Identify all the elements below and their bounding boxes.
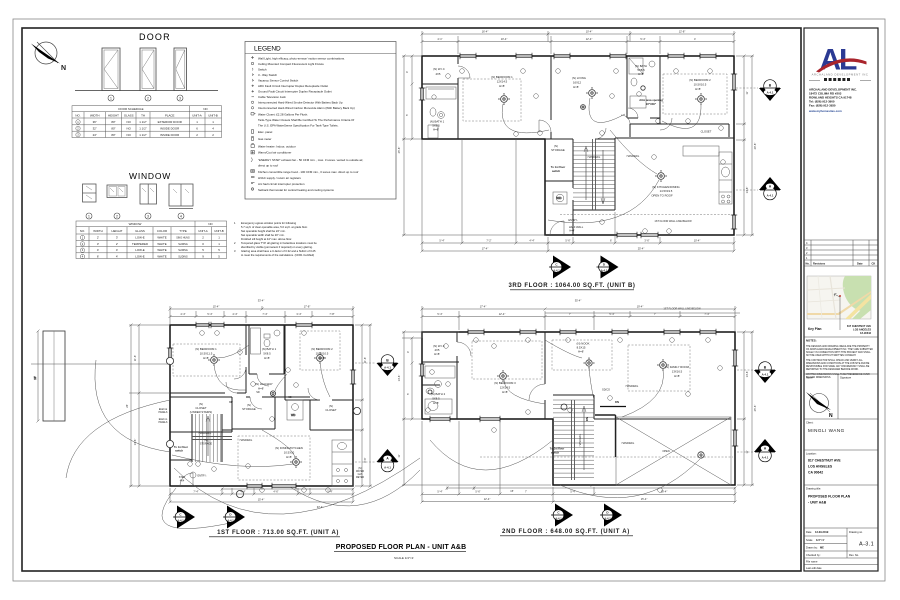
svg-text:File name: File name	[806, 560, 818, 564]
section marker A (right, pointing up)	[759, 177, 781, 200]
svg-text:LOW-E: LOW-E	[135, 236, 144, 240]
svg-text:12X14.5: 12X14.5	[497, 80, 508, 84]
ceiling fans 2nd floor	[428, 357, 704, 458]
section marker B right (pointing down)	[377, 355, 399, 376]
svg-text:ENTRY-: ENTRY-	[568, 218, 578, 222]
bottom info rows	[804, 528, 878, 565]
svg-text:Tank-Type Water Closets Shall: Tank-Type Water Closets Shall Be Certifi…	[258, 118, 354, 122]
svg-text:Date: Date	[857, 262, 863, 266]
svg-text:Net openable width shall be 20: Net openable width shall be 20" min.	[241, 233, 285, 237]
window symbol 3	[140, 184, 157, 204]
svg-text:(N) BEDROOM 3: (N) BEDROOM 3	[494, 381, 516, 385]
svg-text:HANDRAIL: HANDRAIL	[240, 439, 253, 442]
svg-text:18': 18'	[33, 376, 37, 380]
svg-text:LOS ANGELES: LOS ANGELES	[808, 465, 833, 469]
svg-text:UP: UP	[229, 400, 233, 404]
svg-text:H=8': H=8'	[695, 87, 701, 91]
bold small notes	[551, 98, 663, 173]
svg-text:H=8': H=8'	[573, 85, 579, 89]
main caption	[334, 544, 466, 560]
svg-text:STORAGE: STORAGE	[242, 407, 256, 411]
section marker C bottom	[173, 506, 195, 529]
svg-text:(N) W.I.C: (N) W.I.C	[433, 67, 445, 71]
svg-text:12'-8": 12'-8"	[679, 30, 686, 34]
entry door arc	[550, 221, 564, 235]
svg-text:HANDRAIL: HANDRAIL	[627, 155, 640, 158]
svg-text:A-4.1: A-4.1	[384, 466, 391, 470]
svg-text:Client:: Client:	[806, 421, 814, 425]
svg-text:17'-4": 17'-4"	[482, 247, 489, 251]
room labels 1st floor	[159, 347, 365, 483]
stairs 2nd floor	[553, 400, 626, 480]
svg-text:7'-4": 7'-4"	[704, 312, 709, 316]
svg-text:NO: NO	[208, 222, 213, 226]
company name under logo	[812, 73, 869, 77]
svg-text:switch: switch	[551, 451, 560, 455]
svg-text:TH: TH	[141, 114, 145, 118]
svg-text:SD: SD	[288, 396, 292, 399]
svg-text:10.5X11.5: 10.5X11.5	[200, 352, 213, 356]
svg-text:1: 1	[88, 214, 90, 218]
svg-text:11': 11'	[745, 450, 749, 454]
svg-text:Attic area opening: Attic area opening	[639, 98, 663, 102]
svg-text:(N) BEDROOM 2: (N) BEDROOM 2	[311, 347, 333, 351]
svg-text:5'-4": 5'-4"	[570, 490, 575, 494]
svg-text:A: A	[820, 43, 842, 76]
svg-text:ARC Fault Circuit Interrupter: ARC Fault Circuit Interrupter Duplex Rec…	[258, 84, 328, 88]
drawing title box	[804, 485, 878, 505]
svg-text:1: 1	[110, 96, 112, 100]
svg-text:A-4.1: A-4.1	[555, 517, 562, 521]
svg-text:To 1st floor: To 1st floor	[551, 165, 565, 169]
svg-text:5'-6": 5'-6"	[565, 239, 570, 243]
window symbol 1	[83, 184, 97, 202]
bath2 fixtures (middle bath)	[629, 58, 655, 108]
svg-text:(N) BATH 1: (N) BATH 1	[262, 347, 277, 351]
svg-text:SLIDING: SLIDING	[178, 256, 188, 259]
svg-text:5'-4": 5'-4"	[437, 312, 442, 316]
svg-text:10.5X10: 10.5X10	[284, 451, 295, 455]
svg-text:Revisions: Revisions	[813, 262, 826, 266]
big sweep curves around 1st floor	[66, 360, 420, 529]
svg-text:CLOSET: CLOSET	[325, 408, 336, 412]
svg-text:GLASS: GLASS	[135, 229, 145, 233]
section marker A right (pointing up)	[377, 449, 399, 472]
svg-text:4'-6": 4'-6"	[273, 490, 278, 494]
svg-text:Tempered glass TYP. all glazin: Tempered glass TYP. all glazing in hazar…	[241, 241, 317, 245]
svg-text:INSIDE DOOR: INSIDE DOOR	[160, 133, 179, 137]
svg-text:ELEC-G: ELEC-G	[159, 419, 168, 421]
svg-text:5'-4": 5'-4"	[609, 312, 614, 316]
svg-text:STORAGE: STORAGE	[200, 443, 213, 446]
svg-text:29'-8": 29'-8"	[753, 143, 757, 150]
svg-text:33'-4": 33'-4"	[258, 299, 265, 303]
svg-text:Cable Television Jack: Cable Television Jack	[258, 95, 286, 99]
right dimension lines	[736, 55, 754, 237]
svg-text:80": 80"	[111, 133, 115, 137]
svg-text:Setback thermostat for central: Setback thermostat for central heating a…	[258, 188, 334, 192]
svg-text:817 CHESTNUT AVE: 817 CHESTNUT AVE	[808, 459, 841, 463]
svg-text:DN: DN	[615, 400, 619, 404]
number bubbles 1st floor	[188, 331, 331, 493]
1st floor exterior walls	[170, 325, 353, 486]
svg-text:Switch: Switch	[258, 68, 267, 72]
wd boxes	[287, 400, 303, 420]
svg-text:Water heater: Indoor, outdoor: Water heater: Indoor, outdoor	[258, 145, 296, 149]
1st floor plan	[31, 299, 420, 537]
location box	[804, 450, 878, 475]
ceiling fans 1st floor	[208, 352, 326, 468]
svg-text:5X8.5: 5X8.5	[263, 352, 271, 356]
svg-text:80": 80"	[111, 127, 115, 131]
windows on right and left and bottom walls	[419, 74, 737, 238]
door arcs 1st floor	[226, 367, 320, 409]
svg-text:7'-4": 7'-4"	[262, 312, 267, 316]
svg-text:DN: DN	[585, 417, 589, 421]
svg-text:H=8': H=8'	[264, 356, 270, 360]
svg-text:HALF WALL: HALF WALL	[569, 225, 584, 229]
top dimension lines	[421, 31, 736, 56]
svg-text:14'-6": 14'-6"	[745, 371, 749, 378]
svg-text:Checked by:: Checked by:	[806, 553, 821, 557]
kitchen counter	[332, 440, 353, 486]
svg-text:15'-4": 15'-4"	[258, 498, 265, 502]
svg-text:12'-4": 12'-4"	[499, 312, 506, 316]
left dimension lines 2nd floor	[402, 331, 551, 487]
svg-text:1 1/2": 1 1/2"	[139, 127, 146, 131]
svg-text:H=8': H=8'	[319, 356, 325, 360]
svg-text:7'-8": 7'-8"	[329, 312, 334, 316]
W bubbles	[166, 357, 360, 497]
windows on top wall	[460, 53, 716, 59]
svg-text:NOT BE USED WITHOUT WRITTEN CO: NOT BE USED WITHOUT WRITTEN CONSENT.	[806, 355, 857, 357]
svg-text:A-4.1: A-4.1	[762, 456, 769, 460]
svg-text:25'-8": 25'-8"	[397, 147, 401, 154]
svg-text:OF ARCHALAND DEVELOPMENT INC.: OF ARCHALAND DEVELOPMENT INC. THEY ARE S…	[806, 348, 873, 351]
svg-text:(N): (N)	[358, 468, 361, 470]
company logo AL	[816, 43, 867, 76]
svg-text:11'-6": 11'-6"	[363, 357, 367, 363]
svg-text:15': 15'	[510, 489, 514, 493]
svg-text:3'-4": 3'-4"	[296, 312, 301, 316]
svg-text:HANDRAIL: HANDRAIL	[199, 432, 212, 435]
stairs 1st floor	[192, 414, 232, 462]
2nd floor exterior walls	[422, 332, 735, 485]
svg-text:32": 32"	[93, 127, 97, 131]
door symbol 2	[140, 48, 156, 91]
svg-text:Ceiling Mounted Compact Fluore: Ceiling Mounted Compact Fluorescent Ligh…	[258, 62, 324, 66]
svg-text:5X8.5: 5X8.5	[432, 397, 440, 401]
svg-text:"ENERGY STAR" exhaust fan - 50: "ENERGY STAR" exhaust fan - 50 CFM min. …	[258, 158, 363, 162]
3rd floor plan	[397, 30, 781, 290]
notes paragraph	[806, 339, 873, 380]
svg-text:11'-6": 11'-6"	[133, 355, 137, 361]
svg-text:REPORTED TO THE DESIGNER BEFOR: REPORTED TO THE DESIGNER BEFORE WORK.	[806, 369, 859, 371]
kitchen counter and appliances	[683, 146, 732, 204]
svg-text:Scale: Scale	[806, 538, 813, 542]
svg-text:H=8': H=8'	[433, 401, 439, 405]
window schedule table	[76, 221, 227, 259]
svg-text:Drawn by:: Drawn by:	[806, 546, 818, 550]
svg-text:Glazing area shall have a U-fa: Glazing area shall have a U-factor of 0.…	[241, 249, 316, 253]
svg-text:H=8': H=8'	[674, 374, 680, 378]
svg-text:HEIGHT: HEIGHT	[108, 114, 119, 118]
svg-text:A-4.1: A-4.1	[177, 519, 184, 523]
svg-text:11': 11'	[397, 454, 401, 458]
title block frame	[804, 28, 878, 571]
svg-text:WINDOW: WINDOW	[129, 222, 142, 226]
3rd floor exterior walls	[422, 56, 734, 235]
bath 1 fixtures	[251, 328, 281, 354]
switch curves	[502, 98, 701, 223]
door symbol 1	[102, 48, 120, 91]
room labels 2nd floor	[431, 308, 701, 454]
svg-text:Gas meter: Gas meter	[258, 137, 272, 141]
svg-text:36": 36"	[93, 120, 97, 124]
svg-text:Rev. No.: Rev. No.	[849, 553, 859, 557]
inner drawing frame	[22, 28, 801, 571]
svg-text:Signature: Signature	[840, 376, 852, 380]
svg-text:17'-8": 17'-8"	[304, 305, 311, 309]
svg-text:16X12: 16X12	[573, 81, 582, 85]
svg-text:- UNIT A&B: - UNIT A&B	[808, 501, 827, 505]
svg-text:5'-4": 5'-4"	[439, 239, 444, 243]
svg-text:11': 11'	[745, 91, 749, 95]
svg-text:WHITE: WHITE	[157, 236, 166, 240]
svg-text:A-4.1: A-4.1	[604, 517, 611, 521]
window symbol 4	[169, 184, 193, 209]
svg-text:3RD FLOOR : 1064.00 SQ.FT. (: 3RD FLOOR : 1064.00 SQ.FT. (UNIT B)	[509, 283, 636, 289]
DOOR section title	[139, 32, 171, 42]
svg-text:22"X30": 22"X30"	[646, 102, 657, 106]
right dimension lines 1st floor	[355, 324, 372, 488]
svg-text:LEGEND: LEGEND	[254, 46, 281, 53]
svg-text:THE CONTRACTOR SHALL CHECK AND: THE CONTRACTOR SHALL CHECK AND VERIFY AL…	[806, 359, 863, 362]
svg-text:W/D: W/D	[557, 196, 562, 200]
svg-text:NOTES:: NOTES:	[806, 339, 817, 343]
svg-text:A-4.1: A-4.1	[767, 91, 774, 95]
top dimension lines 2nd floor	[421, 306, 741, 338]
2nd floor title	[500, 529, 633, 536]
bold notes 1st floor	[174, 400, 233, 453]
svg-text:ARCHALAND DEVELOPMENT INC: ARCHALAND DEVELOPMENT INC	[812, 73, 869, 77]
door symbol 3	[174, 48, 187, 91]
svg-text:EXTERIOR DOOR: EXTERIOR DOOR	[158, 120, 182, 124]
svg-text:1 1/2": 1 1/2"	[139, 133, 146, 137]
top dimension lines 1st floor	[169, 306, 355, 325]
svg-text:www.myhomesites.com: www.myhomesites.com	[808, 109, 842, 113]
svg-text:OPEN: OPEN	[662, 449, 669, 453]
svg-text:SD/CO: SD/CO	[602, 389, 610, 392]
svg-text:NO: NO	[127, 120, 132, 124]
svg-text:1/4"=1': 1/4"=1'	[816, 538, 825, 542]
svg-text:HVAC supply / return air regis: HVAC supply / return air registers	[258, 176, 301, 180]
svg-text:ELEC-E: ELEC-E	[159, 409, 168, 411]
window number bubbles	[86, 213, 184, 219]
svg-text:Date: Date	[806, 530, 812, 534]
svg-text:direct up to roof: direct up to roof	[258, 164, 278, 168]
entry door arc	[180, 472, 196, 486]
revisions table	[804, 240, 878, 266]
stairs 3rd floor	[573, 139, 615, 210]
svg-text:N: N	[829, 413, 833, 419]
svg-text:Drawing title:: Drawing title:	[806, 487, 821, 491]
svg-text:3: 3	[179, 96, 181, 100]
long extension line to annex	[31, 330, 170, 423]
svg-text:WIDTH: WIDTH	[93, 229, 102, 233]
svg-text:WATER: WATER	[356, 470, 364, 473]
svg-text:ENTRY:: ENTRY:	[198, 475, 207, 478]
svg-text:5'-4": 5'-4"	[327, 490, 332, 494]
svg-text:TYPE: TYPE	[179, 229, 187, 233]
title block content	[804, 43, 878, 570]
svg-text:SLIDING: SLIDING	[178, 243, 188, 246]
svg-text:H=8': H=8'	[499, 84, 505, 88]
3rd floor title	[509, 283, 636, 290]
svg-text:Interconnected Hard-Wired Smok: Interconnected Hard-Wired Smoke Detector…	[258, 101, 343, 105]
ceiling fans	[498, 86, 707, 182]
svg-text:7'-2": 7'-2"	[486, 239, 491, 243]
svg-text:CA 90642: CA 90642	[808, 471, 823, 475]
bottom dimension lines	[421, 139, 736, 253]
svg-text:A-4.1: A-4.1	[553, 269, 560, 273]
svg-text:PROPOSED FLOOR PLAN: PROPOSED FLOOR PLAN	[808, 495, 851, 499]
svg-text:PROPOSED FLOOR PLAN - UNIT A&B: PROPOSED FLOOR PLAN - UNIT A&B	[336, 544, 467, 551]
general notes tiny block under legend	[234, 221, 317, 257]
svg-text:14.5X19.5: 14.5X19.5	[660, 189, 673, 193]
dashed ceiling boxes 2nd floor	[472, 340, 690, 391]
section marker B right 2nd (pointing down)	[754, 362, 776, 383]
svg-text:Finished sill height at 44" ma: Finished sill height at 44" max. above f…	[241, 237, 292, 241]
right dimension lines 2nd floor	[737, 331, 754, 487]
svg-text:3'-6": 3'-6"	[644, 239, 649, 243]
section marker C bottom 2nd	[551, 504, 573, 527]
svg-text:4'-4": 4'-4"	[232, 312, 237, 316]
svg-text:2ND FLOOR : 648.00 SQ.FT. (U: 2ND FLOOR : 648.00 SQ.FT. (UNIT A)	[502, 529, 630, 535]
svg-text:switch: switch	[552, 169, 561, 173]
svg-text:Emergency egress window points: Emergency egress window points for follo…	[241, 221, 297, 225]
svg-text:DIMENSIONS AND CONDITIONS AT T: DIMENSIONS AND CONDITIONS AT THE JOB SIT…	[806, 362, 870, 365]
svg-text:WD: WD	[291, 413, 295, 417]
svg-text:(N) BATH 2: (N) BATH 2	[431, 392, 446, 396]
svg-text:5'-4": 5'-4"	[437, 490, 442, 494]
svg-text:Vacancy Sensor Control Switch: Vacancy Sensor Control Switch	[258, 79, 299, 83]
svg-text:H=8': H=8'	[434, 352, 440, 356]
svg-text:12X14.5: 12X14.5	[500, 386, 511, 390]
svg-text:OPEN TO ROOF: OPEN TO ROOF	[651, 194, 673, 198]
svg-text:25'-4": 25'-4"	[638, 247, 645, 251]
north and signature box	[804, 374, 878, 419]
svg-text:WIDTH: WIDTH	[90, 114, 99, 118]
svg-text:Fax: (626) 912-3930: Fax: (626) 912-3930	[809, 104, 836, 108]
svg-text:H=4': H=4'	[569, 229, 575, 233]
svg-text:(N) LIVING: (N) LIVING	[572, 76, 586, 80]
svg-text:Elec. panel: Elec. panel	[258, 130, 273, 134]
svg-text:METER: METER	[356, 477, 364, 479]
svg-text:10'-4": 10'-4"	[586, 30, 593, 34]
svg-text:SOLELY IN CONNECTION WITH THIS: SOLELY IN CONNECTION WITH THIS PROJECT A…	[806, 351, 871, 354]
svg-text:4'-4": 4'-4"	[529, 239, 534, 243]
svg-text:To 1st floor: To 1st floor	[550, 447, 564, 451]
svg-text:STORAGE: STORAGE	[551, 148, 565, 152]
svg-text:19'-4": 19'-4"	[637, 305, 644, 309]
2nd floor plan	[397, 299, 776, 536]
svg-text:Interconnected Hard-Wired Carb: Interconnected Hard-Wired Carbon Monoxid…	[258, 106, 355, 110]
svg-text:NO: NO	[127, 127, 132, 131]
svg-text:WHITE: WHITE	[157, 242, 166, 246]
svg-text:4X4: 4X4	[180, 480, 185, 483]
svg-text:1 1/2": 1 1/2"	[139, 120, 146, 124]
svg-text:INSIDE DOOR: INSIDE DOOR	[160, 127, 179, 131]
svg-text:H=8': H=8'	[433, 128, 439, 132]
svg-text:35'-4": 35'-4"	[575, 299, 582, 303]
svg-text:10.5X10.5: 10.5X10.5	[694, 83, 707, 87]
svg-text:Water Closet: £2.28 Gallons Pe: Water Closet: £2.28 Gallons Per Flush.	[258, 113, 308, 117]
section cut dashes 3rd floor	[736, 88, 758, 190]
svg-text:RESPONSIBLE FOR SAME. ANY DISC: RESPONSIBLE FOR SAME. ANY DISCREPANCY SH…	[806, 365, 870, 368]
svg-text:to meet the requirements of th: to meet the requirements of the calculat…	[241, 253, 314, 257]
svg-text:CA 90642: CA 90642	[860, 332, 872, 335]
svg-text:GLASS: GLASS	[124, 114, 134, 118]
svg-text:5'-4": 5'-4"	[640, 37, 645, 41]
svg-text:A-4.1: A-4.1	[227, 519, 234, 523]
left dimension lines	[402, 55, 546, 237]
WINDOW section title	[129, 171, 171, 181]
door schedule table	[72, 106, 222, 138]
client box	[804, 419, 878, 433]
svg-text:PANELS: PANELS	[159, 421, 168, 424]
svg-text:5'-4": 5'-4"	[207, 312, 212, 316]
bath2 fixtures	[425, 366, 455, 414]
svg-text:Ground Fault Circuit Interrupt: Ground Fault Circuit Interrupter Duplex …	[258, 90, 332, 94]
svg-text:COLOR: COLOR	[157, 229, 167, 233]
svg-text:PLACE: PLACE	[165, 114, 175, 118]
svg-text:H=8': H=8'	[286, 455, 292, 459]
svg-text:CK: CK	[872, 262, 876, 266]
svg-text:switch: switch	[175, 449, 183, 453]
room labels 3rd floor	[430, 64, 712, 233]
svg-text:NO.: NO.	[80, 229, 85, 233]
svg-text:A-4.1: A-4.1	[384, 366, 391, 370]
section marker D (bottom)	[597, 256, 619, 279]
left dimension lines 1st floor	[129, 324, 170, 488]
svg-text:2: 2	[147, 96, 149, 100]
svg-text:14'-6": 14'-6"	[133, 439, 137, 446]
svg-text:HANDRAIL: HANDRAIL	[622, 442, 635, 445]
svg-text:HANDRAIL: HANDRAIL	[579, 433, 582, 446]
svg-text:H=8': H=8'	[578, 350, 584, 354]
number bubbles 2nd floor	[426, 338, 723, 493]
svg-text:H=8': H=8'	[638, 72, 644, 76]
svg-text:NO: NO	[127, 133, 132, 137]
svg-text:(N) DINING/KITCHEN: (N) DINING/KITCHEN	[275, 446, 303, 450]
svg-text:identified by visible (permane: identified by visible (permanent if requ…	[241, 245, 313, 249]
svg-text:UNIT-A: UNIT-A	[192, 114, 202, 118]
svg-text:MINGLI WANG: MINGLI WANG	[808, 428, 845, 433]
svg-text:(N) FAMILY ROOM: (N) FAMILY ROOM	[665, 365, 689, 369]
svg-text:Drawing no.: Drawing no.	[849, 530, 863, 534]
svg-text:Key Plan: Key Plan	[808, 327, 822, 331]
svg-text:Last edit date: Last edit date	[806, 566, 822, 570]
switch curves 1st floor	[172, 345, 330, 467]
left tall annex rectangle	[43, 331, 65, 421]
svg-text:To 1st floor: To 1st floor	[174, 445, 188, 449]
svg-text:THE DESIGNS AND DRAWING IDEAS: THE DESIGNS AND DRAWING IDEAS ARE THE PR…	[806, 345, 870, 348]
section marker B (right, pointing down)	[759, 80, 781, 101]
svg-text:4'-4": 4'-4"	[180, 312, 185, 316]
chinese name row	[809, 78, 871, 81]
washer dryer	[553, 192, 567, 204]
